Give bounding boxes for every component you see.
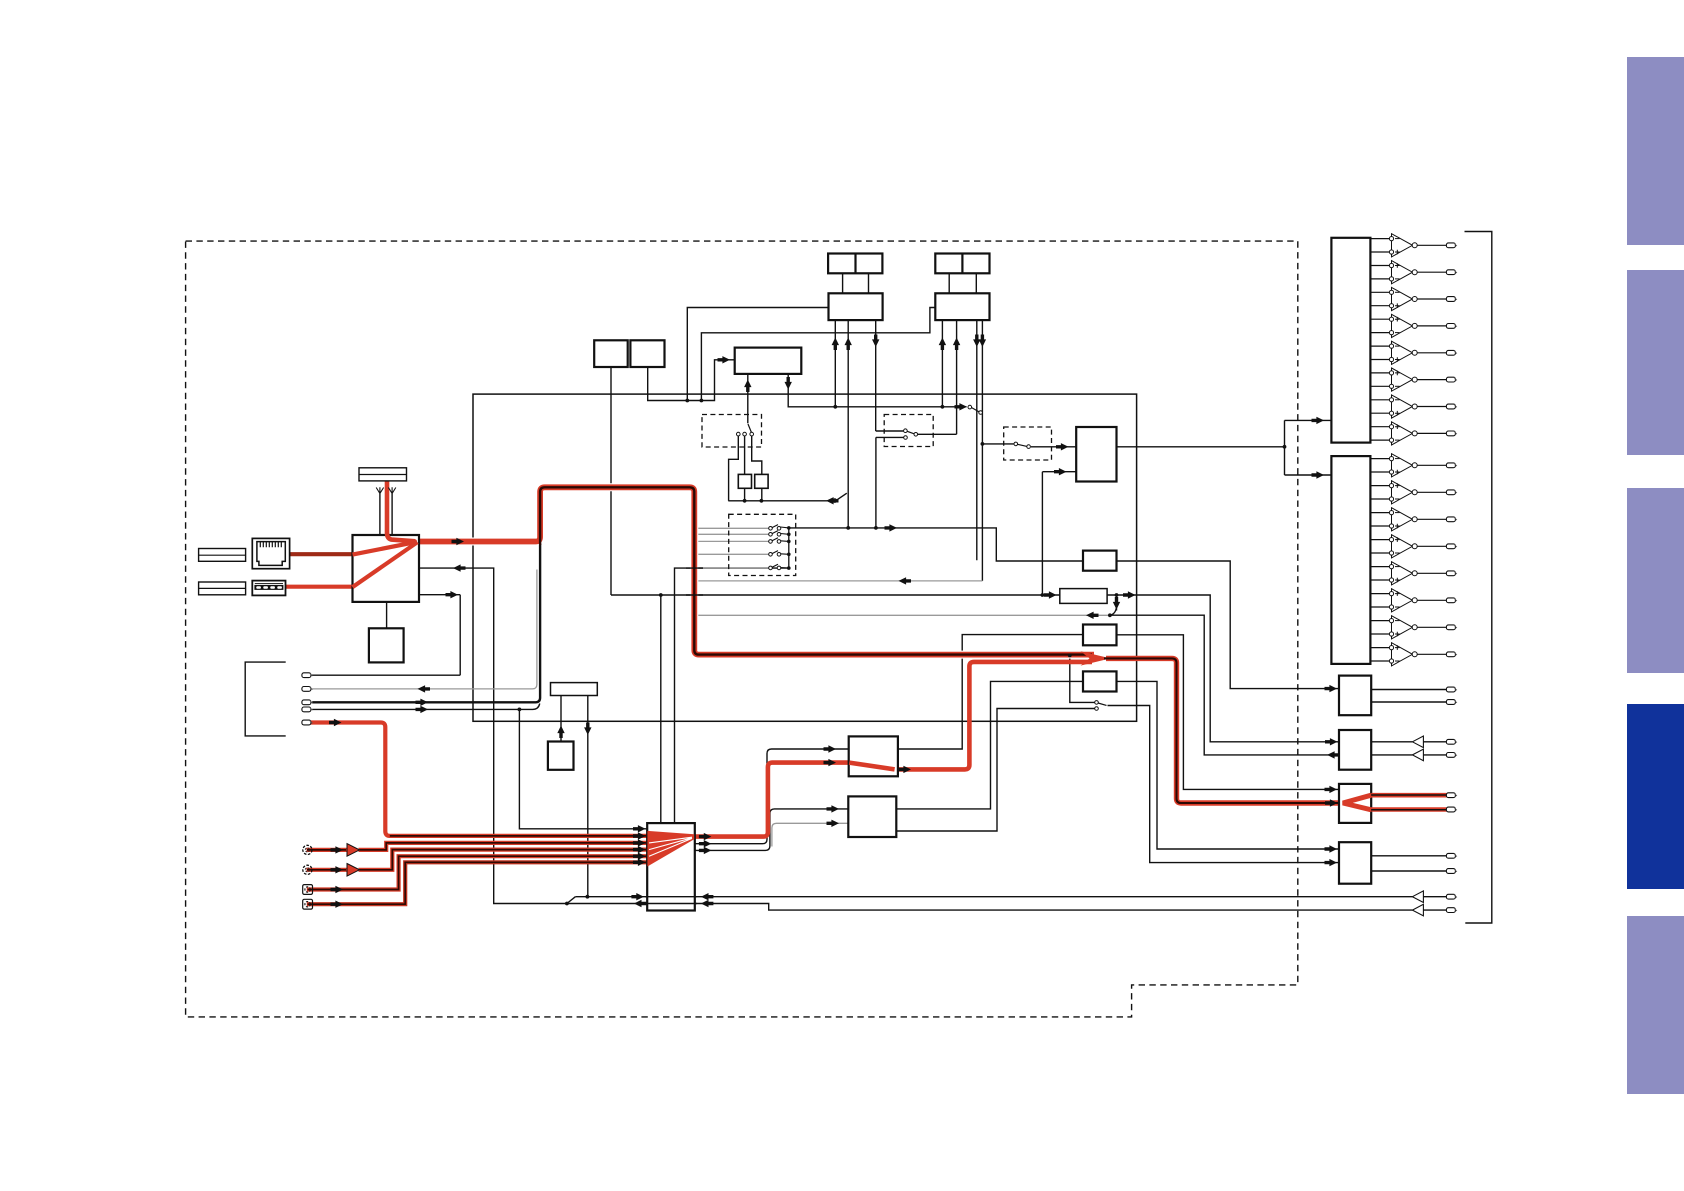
red coax2 to bundle <box>307 862 647 904</box>
digital jack at 722.5 <box>302 720 313 725</box>
junction dots <box>518 399 1287 906</box>
red antenna lead <box>385 481 390 533</box>
box S2 <box>1083 551 1117 571</box>
control box <box>735 348 802 374</box>
wide box W2 <box>551 683 598 696</box>
wire tuner2 trunk <box>949 273 976 293</box>
buffer thin box <box>1060 589 1107 604</box>
arrow DAC in1 <box>1056 443 1069 450</box>
wire monitor lines through selector <box>645 897 697 904</box>
arrow into router 568 <box>453 564 466 571</box>
wire gray return 615 <box>696 614 1109 616</box>
arrow up tuner1 a <box>832 338 839 351</box>
DAC box <box>1076 427 1116 482</box>
op-amp ch3 <box>1370 287 1457 310</box>
amp array box 2 <box>1331 456 1370 664</box>
wire 500.8 blade <box>837 493 847 500</box>
memory box 2 <box>630 340 664 367</box>
red merged trunk to box E <box>1106 658 1339 803</box>
red bundle cores <box>307 836 646 904</box>
wire memory box2 to control box <box>648 360 735 401</box>
wire pill3 heavy <box>312 543 540 702</box>
arrow down tuner2 c <box>973 335 980 348</box>
LS square 1 <box>738 474 751 488</box>
red router fan antenna diagonal <box>387 533 416 541</box>
arrow rca1 <box>331 846 344 853</box>
wire bus 595 to buffer <box>611 594 1060 596</box>
red main trunk core <box>540 487 1092 654</box>
box F <box>1339 842 1371 884</box>
wire SB2 upper out to box B2 <box>896 681 1083 809</box>
LS square 2 <box>755 474 768 488</box>
wire selector black out to SB1 <box>695 749 849 844</box>
wire bridge 595 over trunk <box>686 594 703 596</box>
selector red fan <box>647 831 694 867</box>
wire tuner2 output d <box>981 320 983 581</box>
arrow up tuner2 a <box>939 338 946 351</box>
wire selector input stub 3 <box>696 540 769 542</box>
red rca2 input <box>307 868 348 872</box>
red main trunk <box>418 487 1094 654</box>
wire selector input stub 2 <box>696 533 769 535</box>
wire SB2 lower out to switch <box>896 709 1094 832</box>
wire antenna leads <box>380 494 392 536</box>
wire DAC input 2 <box>1042 472 1076 595</box>
wire box D outputs <box>1371 742 1446 755</box>
red selector out to SB1 <box>695 763 849 837</box>
wire MS second throw <box>876 437 904 528</box>
op-amp ch1 <box>1370 234 1457 257</box>
box C <box>1339 676 1371 716</box>
output jack at 795.2 <box>1446 793 1457 798</box>
arrow pill3 <box>416 699 429 706</box>
wire SB1 out to box A <box>898 635 1083 749</box>
wire output bracket right <box>1465 232 1492 924</box>
wire control box leg right to switch <box>788 374 966 407</box>
wire hdmi2 switch common to box F lower <box>1070 655 1339 862</box>
wire selector bus to S2 <box>789 528 1083 561</box>
wire selector input stub 4 <box>696 553 769 555</box>
coax jack 2 <box>303 899 313 909</box>
red buffer triangle 1 <box>347 844 360 857</box>
hdmi audio switch circles <box>1095 701 1107 711</box>
arrow amp2 in <box>1312 471 1325 478</box>
arrows into SB1 <box>824 745 837 752</box>
digital jack at 688.9 <box>302 687 313 692</box>
arrow down control right leg <box>785 377 792 390</box>
box A <box>1083 625 1117 646</box>
tuner1 head boxes <box>828 254 882 274</box>
dashed page border <box>186 241 1298 1017</box>
buffer junction curve <box>1108 605 1117 617</box>
box E red output cores <box>1371 795 1446 810</box>
output jack at 896.7 <box>1446 894 1457 899</box>
DS3 dashed switch box <box>1004 427 1052 460</box>
wire selector input stub 5 <box>696 567 769 569</box>
input buffer triangle at 910.1 <box>1412 904 1423 916</box>
wire W2 to box S <box>560 696 562 742</box>
op-amp ch12 <box>1370 535 1457 558</box>
arrow buffer out <box>1123 591 1136 598</box>
output jack at 910.1 <box>1446 908 1457 913</box>
left blank rect 2 <box>199 582 246 595</box>
arrow amp1 in <box>1312 417 1325 424</box>
wire box F outputs <box>1371 856 1446 871</box>
switch box SB2 <box>848 796 896 837</box>
red usb lead <box>286 585 354 589</box>
red buffer triangle 2 <box>347 864 360 877</box>
arrow coax1 <box>331 886 344 893</box>
wire monitor blade <box>567 897 576 904</box>
arrows into selector <box>633 825 646 832</box>
arrow box F in lower <box>1325 859 1338 866</box>
tuner1 main box <box>829 293 883 320</box>
small box S <box>548 742 574 770</box>
selector switch row 1 <box>769 525 789 531</box>
arrow gray581 left <box>899 577 912 584</box>
op-amp ch2 <box>1370 261 1457 284</box>
red rca2 to bundle <box>359 850 648 870</box>
wire pill4 <box>312 704 540 710</box>
sidebar tab 4 (active) <box>1627 704 1684 889</box>
wire selector vertical 1 <box>660 595 662 823</box>
wire box B2 out to box F upper <box>1117 681 1340 849</box>
arrow up into W2 <box>557 726 564 739</box>
digital jack at 675.2 <box>302 673 313 678</box>
output jack at 809.5 <box>1446 807 1457 812</box>
input buffer triangle at 741.8 <box>1412 736 1423 748</box>
wire box C outputs <box>1371 690 1446 703</box>
wire output bracket left <box>245 662 286 736</box>
wire 500.8 return line <box>728 500 831 502</box>
wire monitor line lower <box>419 568 1446 910</box>
antenna bar <box>359 468 407 481</box>
500.8 blade circle <box>833 499 837 503</box>
wire tuner1 feed L1 <box>687 308 828 401</box>
arrow gray615 left <box>1086 612 1099 619</box>
arrow pill4 <box>416 706 429 713</box>
arrow down tuner1 c <box>872 335 879 348</box>
arrow box C in <box>1325 685 1338 692</box>
selector fan gaps <box>649 837 692 856</box>
box below network module <box>369 628 404 662</box>
op-amp ch14 <box>1370 589 1457 612</box>
wire S2 to box C <box>1117 561 1340 689</box>
red rca1 to bundle <box>359 843 648 850</box>
arrow coax2 <box>331 901 344 908</box>
tuner2 head boxes <box>935 254 989 274</box>
wire bridge 568 over trunk <box>686 567 703 569</box>
arrow box E in upper <box>1325 786 1338 793</box>
red pill5 input <box>311 723 647 836</box>
red router fan usb diagonal <box>353 542 418 587</box>
arrow down buffer2 <box>584 723 591 736</box>
arrow monitor up into selector <box>631 893 644 900</box>
wire tuner1 output b <box>847 320 849 528</box>
selector switch row 2 <box>769 531 789 537</box>
red rca1 input <box>307 848 348 852</box>
arrow into control box <box>718 356 731 363</box>
wire memory box1 drop <box>610 367 612 595</box>
arrow down buffer junction <box>1113 597 1120 610</box>
wire buffer out to box D upper <box>1107 595 1339 742</box>
op-amp ch10 <box>1370 481 1457 504</box>
box E red outputs <box>1371 795 1446 809</box>
digital jack at 709.4 <box>302 707 313 712</box>
red merged trunk core <box>1104 658 1339 803</box>
arrow into buffer <box>1044 591 1057 598</box>
usb connector <box>252 581 285 596</box>
MS dashed switch box <box>884 415 933 447</box>
switch at 407 circles <box>968 405 982 414</box>
arrow box E red in <box>1325 799 1338 806</box>
arrow 406 line <box>955 403 968 410</box>
wire gray return 581 <box>696 580 982 582</box>
sidebar tab 2 <box>1627 270 1684 455</box>
red main trunk halo <box>418 487 1094 654</box>
op-amp ch15 <box>1370 616 1457 639</box>
arrow box D in upper <box>1325 738 1338 745</box>
wire tuner2 feed L2 <box>701 308 935 401</box>
arrow bus527 <box>885 524 898 531</box>
wire buffer2 vertical <box>587 696 589 897</box>
arrows into SB2 <box>827 805 840 812</box>
output jack at 754.9 <box>1446 753 1457 758</box>
MS switch <box>904 429 918 439</box>
wire selector vertical 2 <box>675 568 789 823</box>
arrow down tuner2 d <box>979 335 986 348</box>
wire monitor line upper <box>575 896 1446 898</box>
wire MS switch output <box>918 320 957 434</box>
red router fan lan diagonal <box>353 542 418 555</box>
op-amp ch11 <box>1370 508 1457 531</box>
sidebar tab 3 <box>1627 488 1684 673</box>
wire DS3 output to DAC <box>1031 446 1076 448</box>
red sb1 return lower <box>898 662 1092 770</box>
sidebar tab 1 <box>1627 57 1684 245</box>
arrow up tuner2 b <box>953 338 960 351</box>
wire tuner1 trunk <box>843 273 869 293</box>
box E <box>1339 784 1371 823</box>
wire router to pill1 <box>311 595 460 676</box>
box E red split <box>1343 795 1371 810</box>
arrow up tuner1 b <box>845 338 852 351</box>
DSP main rectangle <box>473 394 1137 721</box>
wire SB2 lower input gray <box>772 823 848 846</box>
output jack at 871 <box>1446 869 1457 874</box>
tuner2 main box <box>935 293 989 320</box>
antenna symbol 1 <box>376 487 383 493</box>
sidebar tab 5 <box>1627 916 1684 1094</box>
op-amp ch13 <box>1370 562 1457 585</box>
arrow router red out <box>452 538 465 545</box>
switch box SB1 <box>849 736 898 776</box>
wire selector input stub 1 <box>696 527 769 529</box>
arrow pill5 <box>329 719 342 726</box>
wire tuner2 output a <box>941 320 943 407</box>
arrow monitor low out of selector <box>634 900 647 907</box>
op-amp ch8 <box>1370 422 1457 445</box>
arrow box F in upper <box>1325 845 1338 852</box>
wire LS contact 3 to square2 <box>752 436 762 501</box>
output jack at 741.8 <box>1446 739 1457 744</box>
arrow DAC in2 <box>1054 468 1067 475</box>
rca jack 2 <box>303 865 312 874</box>
selector switch row 5 <box>769 564 789 570</box>
arrows monitor right of selector <box>701 893 714 900</box>
memory box 1 <box>594 340 628 367</box>
output jack at 855.8 <box>1446 853 1457 858</box>
arrow SB1 red out <box>899 766 912 773</box>
arrows selector outputs <box>699 833 712 840</box>
output jack at 702 <box>1446 700 1457 705</box>
network module box <box>353 535 420 602</box>
wire tuner1 output a <box>834 320 836 407</box>
arrow 500.8 left <box>826 497 839 504</box>
input buffer triangle at 896.7 <box>1412 891 1423 903</box>
coax jack 1 <box>303 885 313 895</box>
amp array box 1 <box>1331 238 1370 443</box>
red merge arrowhead <box>1081 651 1111 665</box>
wire router bottom <box>386 602 388 628</box>
op-amp ch4 <box>1370 314 1457 337</box>
wire DAC output to amps <box>1117 420 1332 475</box>
ethernet jack <box>252 538 289 568</box>
arrow rca2 <box>331 866 344 873</box>
arrow router out 594 <box>446 591 459 598</box>
wire control box leg left <box>747 374 749 423</box>
wire box A out to box E <box>1117 635 1340 790</box>
selector switch row 3 <box>769 538 789 544</box>
input selector dashed box <box>729 514 796 575</box>
wire DS3 input <box>982 443 1013 445</box>
output jack at 689.5 <box>1446 687 1457 692</box>
selector switch row 4 <box>769 551 789 557</box>
rca jack 1 <box>303 845 312 854</box>
op-amp ch9 <box>1370 454 1457 477</box>
input selector main box <box>647 823 695 910</box>
wire tuner2 output c <box>976 320 978 560</box>
input buffer triangle at 754.9 <box>1412 749 1423 761</box>
DS3 switch <box>1014 442 1030 448</box>
wire switch to box D lower <box>1110 615 1339 755</box>
op-amp ch5 <box>1370 341 1457 364</box>
red lan lead dark <box>290 552 354 556</box>
wire tuner1 output c <box>876 320 904 431</box>
op-amp ch7 <box>1370 395 1457 418</box>
wire LS contact 2 to square1 <box>744 436 746 501</box>
digital jack at 702.3 <box>302 700 313 705</box>
wire selector black out2 to SB2 <box>695 809 849 851</box>
op-amp ch16 <box>1370 643 1457 666</box>
SB1 red blade <box>849 763 894 770</box>
wire pill2 gray return <box>311 570 537 689</box>
arrow up control left leg <box>744 380 751 393</box>
LS switch circles <box>737 424 754 436</box>
selector bus vertical <box>788 528 790 568</box>
wire LS contact 1 to return <box>729 436 739 501</box>
arrow pill2 left <box>418 685 431 692</box>
wire pill4 branch down <box>519 709 647 828</box>
LS dashed switch box <box>702 415 762 448</box>
op-amp ch6 <box>1370 368 1457 391</box>
red coax1 to bundle <box>307 856 647 889</box>
antenna symbol 2 <box>388 487 395 493</box>
left blank rect 1 <box>199 549 246 562</box>
box D <box>1339 730 1371 770</box>
arrow box D lower left <box>1327 751 1340 758</box>
box B2 <box>1083 671 1117 691</box>
